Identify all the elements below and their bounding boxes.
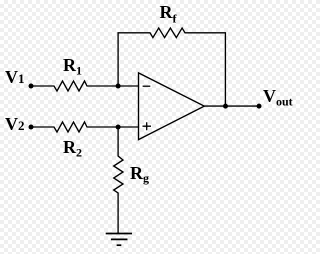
svg-text:Rf: Rf — [160, 2, 178, 26]
svg-text:R1: R1 — [63, 55, 82, 78]
svg-text:V1: V1 — [5, 67, 25, 87]
svg-text:Vout: Vout — [263, 86, 293, 109]
svg-text:R2: R2 — [63, 137, 82, 160]
svg-text:V2: V2 — [5, 114, 25, 134]
svg-text:Rg: Rg — [130, 163, 149, 185]
